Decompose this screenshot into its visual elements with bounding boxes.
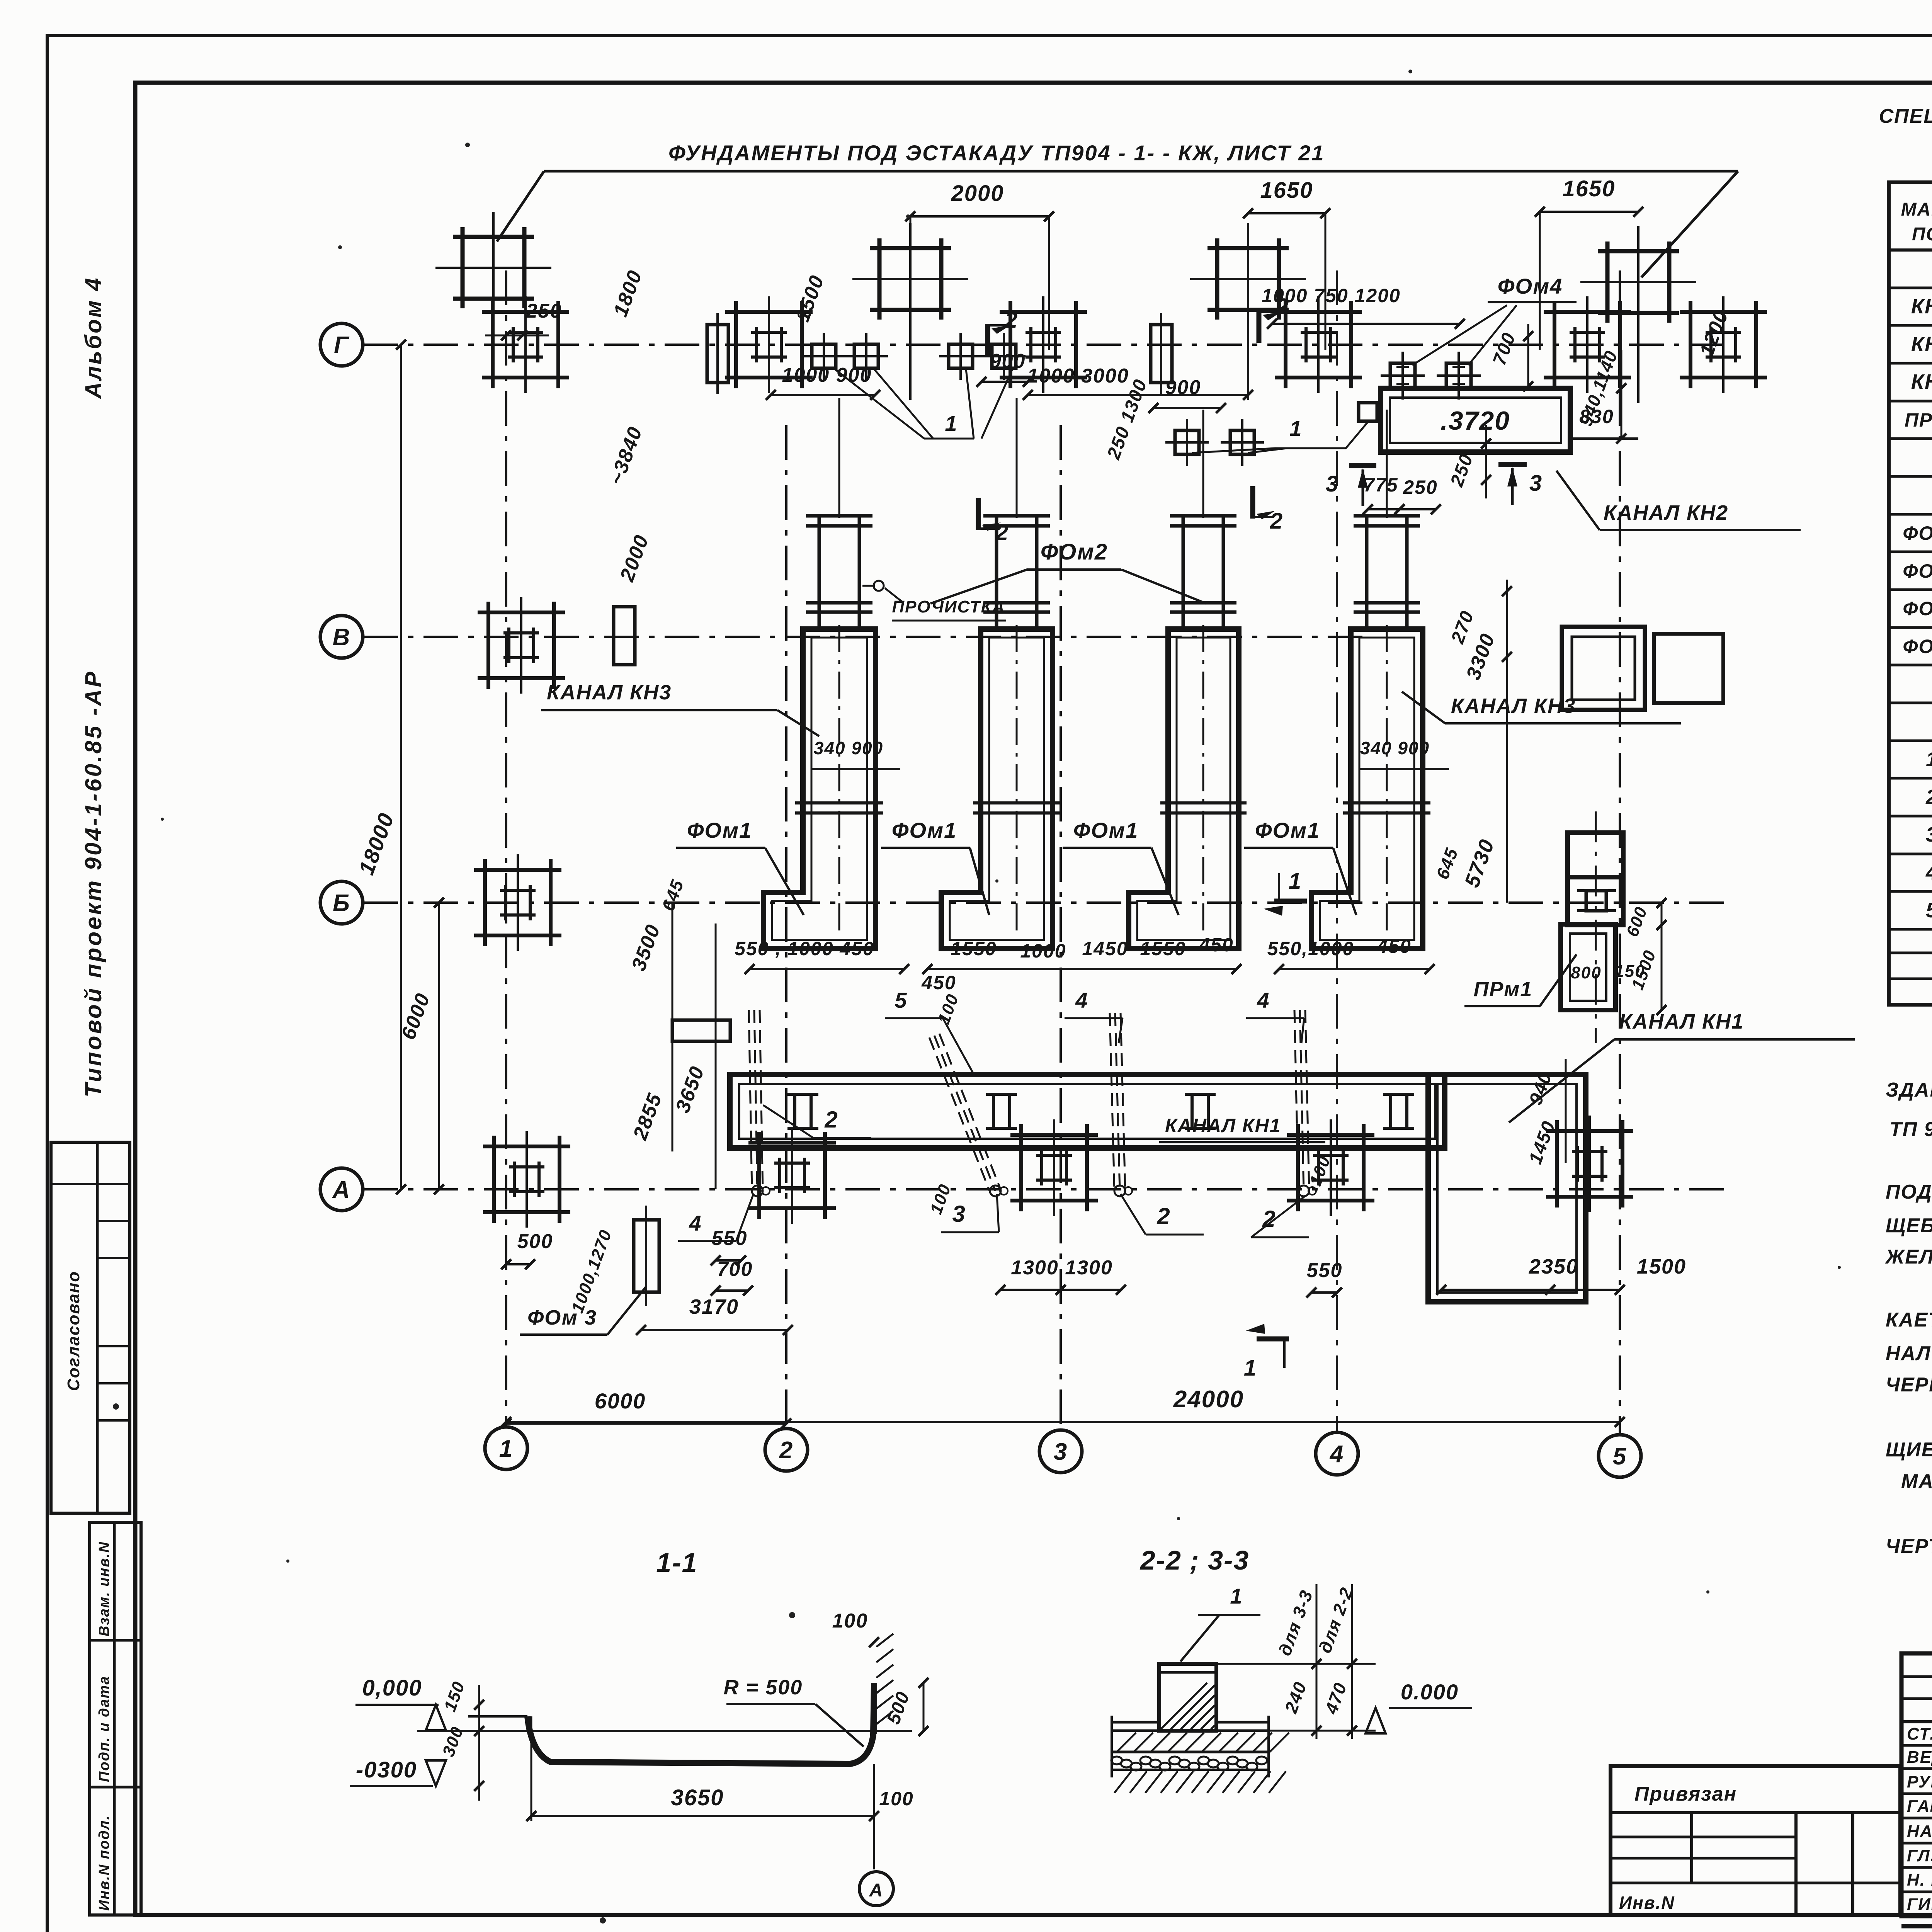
svg-text:1: 1	[1926, 748, 1932, 771]
label FOm3	[520, 1206, 659, 1335]
dim 2000 rot left	[616, 532, 653, 585]
svg-text:Типовой проект 904-1-60.85 -: Типовой проект 904-1-60.85 -АР	[80, 670, 106, 1097]
margin text project	[80, 670, 106, 1097]
svg-text:ГАП: ГАП	[1907, 1797, 1932, 1816]
foundation square on axis G	[1680, 296, 1767, 393]
channel KN3 no.1	[764, 625, 883, 949]
dim 3 label	[941, 1194, 999, 1232]
svg-text:3: 3	[1326, 471, 1339, 497]
section 1-1	[350, 1548, 929, 1906]
svg-text:ПРм1: ПРм1	[1905, 409, 1932, 431]
dim 900 a	[976, 350, 1033, 387]
svg-text:КН2: КН2	[1911, 333, 1932, 356]
svg-text:2: 2	[779, 1437, 793, 1464]
dim 3650 rot	[672, 923, 716, 1189]
dim 1000 1270 rot	[568, 1227, 616, 1315]
svg-text:А: А	[332, 1177, 351, 1203]
svg-text:5: 5	[1926, 899, 1932, 922]
dim 250 1300 rot	[1103, 376, 1151, 462]
svg-text:4: 4	[1257, 988, 1270, 1012]
svg-text:МАРКА: МАРКА	[1901, 199, 1932, 220]
axis circle 3	[1039, 1430, 1082, 1473]
axis circle Г	[320, 323, 363, 366]
svg-text:6000: 6000	[595, 1389, 646, 1413]
svg-text:ФОм1: ФОм1	[687, 818, 752, 842]
svg-text:ФОм1: ФОм1	[892, 818, 957, 842]
svg-text:Альбом 4: Альбом 4	[80, 276, 106, 400]
svg-text:В: В	[333, 624, 351, 651]
foundation square on axis A	[748, 1127, 836, 1224]
dim 940 1140 rot	[1576, 348, 1626, 444]
svg-text:2-2 ; 3-3: 2-2 ; 3-3	[1139, 1545, 1250, 1575]
witness lines above necks	[839, 398, 1387, 518]
dim 4 label left	[678, 1194, 753, 1241]
svg-text:3: 3	[1926, 823, 1932, 846]
approval strip	[51, 1142, 130, 1513]
svg-text:СТ. ТЕХН.: СТ. ТЕХН.	[1907, 1725, 1932, 1743]
svg-text:1650: 1650	[1562, 176, 1615, 201]
svg-text:24000: 24000	[1173, 1386, 1244, 1413]
section flag 2 bottom-right	[1253, 486, 1283, 534]
dim 100 rot a	[934, 991, 963, 1026]
foundation square on axis G	[1544, 296, 1631, 393]
svg-text:3: 3	[952, 1201, 966, 1227]
svg-text:700: 700	[717, 1258, 753, 1281]
spec table rows	[1903, 258, 1932, 922]
svg-text:ПОЗ.: ПОЗ.	[1912, 224, 1932, 245]
filing strip	[90, 1522, 141, 1915]
label kanal KN2	[1556, 471, 1801, 530]
foundation square on axis A	[1546, 1116, 1633, 1212]
svg-text:ФОм4: ФОм4	[1498, 274, 1563, 298]
dim 550 bottom a	[711, 1227, 747, 1265]
dim 3500 rot	[628, 903, 672, 1151]
outer border left	[46, 34, 49, 1932]
channel KN3 no.4	[1311, 625, 1430, 949]
dim 2 label a	[763, 1105, 871, 1138]
section flag 1 upper	[1264, 869, 1307, 916]
svg-text:1650: 1650	[1260, 178, 1313, 203]
svg-text:1550: 1550	[1140, 938, 1186, 959]
labels FOm1	[676, 818, 1356, 915]
dim 645 right rot	[1432, 845, 1462, 882]
dim 340 900 ch4	[1360, 738, 1449, 769]
trench 4 mid	[1110, 1013, 1132, 1196]
dim 1200 rot right	[1696, 307, 1733, 359]
label kanal KN1 mid	[1159, 1115, 1325, 1142]
svg-text:2: 2	[1005, 308, 1018, 333]
svg-text:3650: 3650	[671, 1785, 724, 1810]
foundation square on axis A	[1287, 1119, 1374, 1216]
svg-text:1: 1	[1244, 1355, 1257, 1381]
svg-text:КАНАЛ КН2: КАНАЛ КН2	[1604, 501, 1728, 524]
svg-text:2: 2	[995, 520, 1009, 545]
svg-text:775: 775	[1364, 474, 1398, 496]
dim 340 900 ch1	[811, 738, 900, 769]
title block signatures	[1907, 1723, 1932, 1917]
foundation square on axis G	[725, 296, 813, 393]
axis B line	[363, 901, 1727, 904]
svg-text:ГИП: ГИП	[1907, 1895, 1932, 1914]
svg-text:КАНАЛ КН1: КАНАЛ КН1	[1165, 1115, 1281, 1136]
svg-text:100: 100	[832, 1610, 868, 1632]
channel KN3 no.3	[1129, 625, 1247, 949]
svg-text:340 900: 340 900	[814, 738, 883, 758]
svg-text:КН1: КН1	[1911, 295, 1932, 318]
dim 2000	[905, 181, 1054, 350]
dim 250 rot kn2	[1446, 425, 1491, 498]
label kanal KN1 left	[0, 0, 0, 0]
svg-text:4: 4	[1925, 861, 1932, 884]
beam symbol mid	[1151, 313, 1172, 394]
svg-text:550,1000: 550,1000	[1267, 938, 1354, 959]
svg-text:4: 4	[1329, 1441, 1344, 1468]
channel KN1	[730, 1075, 1445, 1148]
foundation square on axis G	[1000, 296, 1087, 393]
svg-text:1000 3000: 1000 3000	[1027, 365, 1129, 387]
neck FOm2 no.2	[983, 516, 1050, 629]
svg-text:1: 1	[945, 411, 957, 435]
svg-text:ЩЕБНЯ ИЛИ ГРАВИЯ КРУПНОС: ЩЕБНЯ ИЛИ ГРАВИЯ КРУПНОСТЬЮ 40 - 60ММ, П…	[1886, 1214, 1932, 1237]
svg-text:ЧЕРЕЗ 200 - 300 МН С ОБЕИ: ЧЕРЕЗ 200 - 300 МН С ОБЕИХ СТОРОН.	[1886, 1374, 1932, 1396]
svg-text:1-1: 1-1	[656, 1548, 697, 1578]
svg-text:ФОм3: ФОм3	[1903, 598, 1932, 619]
axis 3 line	[1060, 425, 1062, 1430]
svg-text:1300 1300: 1300 1300	[1011, 1257, 1113, 1279]
svg-text:1550: 1550	[951, 938, 997, 959]
dim 550 bottom b	[1306, 1259, 1342, 1298]
label kanal KN3 left	[541, 681, 819, 736]
title block signature grid	[1901, 1653, 1932, 1916]
svg-text:100: 100	[879, 1788, 913, 1810]
svg-text:800: 800	[1571, 963, 1601, 982]
svg-text:Подп. и дата: Подп. и дата	[96, 1675, 112, 1782]
svg-text:1000: 1000	[1020, 940, 1066, 962]
axis circle 5	[1599, 1435, 1641, 1477]
svg-text:Н. КОНТР.: Н. КОНТР.	[1907, 1871, 1932, 1889]
foundation square on axis A	[1010, 1119, 1098, 1216]
svg-text:550: 550	[1307, 1259, 1343, 1282]
dim 500	[501, 1230, 553, 1269]
beam symbol axisV left	[614, 607, 635, 665]
dim 2 label c	[1251, 1196, 1309, 1237]
svg-text:5: 5	[895, 988, 907, 1012]
svg-text:НАЛОВ НЕПУЧИНИСТЫМ ГРУНТОМ: НАЛОВ НЕПУЧИНИСТЫМ ГРУНТОМ С ПОСЛОЙНЫМ Т…	[1886, 1342, 1932, 1365]
label PRm1	[1464, 898, 1667, 1015]
dim 3840 rot	[605, 423, 647, 488]
axis 1 line	[505, 270, 507, 1427]
svg-text:ВЕД. ИНЖ: ВЕД. ИНЖ	[1907, 1748, 1932, 1767]
svg-text:ПРОЧИСТКА: ПРОЧИСТКА	[892, 597, 1005, 616]
section 2-2 3-3	[1111, 1545, 1472, 1793]
svg-text:ФОм4: ФОм4	[1903, 636, 1932, 657]
dim 1500 rot	[791, 272, 829, 325]
dim 1650 a	[1243, 178, 1330, 350]
svg-text:3170: 3170	[689, 1295, 739, 1318]
svg-text:ФУНДАМЕНТЫ ПОД ЭСТАКАДУ: ФУНДАМЕНТЫ ПОД ЭСТАКАДУ ТП904 - 1- - КЖ,…	[668, 141, 1325, 165]
label top underline	[497, 171, 1738, 277]
dim 1000 750 1200	[1262, 285, 1465, 329]
svg-text:4: 4	[689, 1211, 702, 1235]
svg-text:ЩИЕСЯ В ГРУНТЕ, ОБМАЗАТЬ: ЩИЕСЯ В ГРУНТЕ, ОБМАЗАТЬ ЗА 2РАЗА ГОРЯЧИ…	[1886, 1439, 1932, 1461]
svg-text:340 900: 340 900	[1360, 738, 1430, 758]
neck FOm2 no.4	[1354, 516, 1420, 629]
dim 250 top	[485, 300, 562, 340]
dim 100 rot b	[927, 1181, 955, 1216]
svg-text:Привязан: Привязан	[1634, 1783, 1737, 1805]
dim 5 label	[885, 988, 974, 1074]
binding box	[1611, 1766, 1900, 1915]
dim 2350 1500	[1436, 1255, 1686, 1295]
svg-text:ЖЕЛЕЗОБЕТОННЫЕ - ИЗ ПЕСКА: ЖЕЛЕЗОБЕТОННЫЕ - ИЗ ПЕСКА ТОЛЩИНОЙ 100 М…	[1884, 1245, 1932, 1268]
svg-text:900: 900	[990, 350, 1026, 372]
label kanal KN1 right	[1509, 1010, 1855, 1122]
label top	[668, 141, 1325, 165]
dim 4 label b	[1246, 988, 1304, 1043]
svg-text:0,000: 0,000	[362, 1675, 422, 1701]
axis V line	[363, 636, 1368, 638]
svg-text:Г: Г	[334, 332, 350, 359]
axis circle В	[320, 616, 363, 658]
svg-text:1000 900: 1000 900	[782, 364, 872, 386]
outer border top	[47, 34, 1932, 37]
svg-text:ФОм1: ФОм1	[1073, 818, 1139, 842]
dim 270 3300 rot	[1447, 580, 1512, 683]
svg-text:450: 450	[921, 972, 956, 993]
svg-text:ЗДАНИЯ И ФУНДАМЕНТНЫХ БАЛОК: ЗДАНИЯ И ФУНДАМЕНТНЫХ БАЛОК ВЫПОЛНЕНА НА…	[1886, 1079, 1932, 1101]
neck FOm2 no.1	[806, 516, 872, 629]
dim 1000 3000	[1023, 365, 1253, 400]
dim 2855 rot	[629, 1090, 666, 1143]
axis A line	[363, 1188, 1727, 1190]
svg-text:0.000: 0.000	[1401, 1680, 1459, 1704]
estakada square 4	[1580, 226, 1696, 403]
svg-text:1500: 1500	[1637, 1255, 1686, 1278]
section flag 2 bottom-left	[978, 498, 1009, 545]
svg-text:450: 450	[1376, 935, 1411, 957]
dim 900 b	[1148, 376, 1226, 413]
svg-text:2: 2	[1270, 509, 1283, 534]
dim 4 label a	[1065, 988, 1122, 1043]
dim 2 label b	[1121, 1194, 1204, 1235]
axis 5 line	[1619, 270, 1621, 1435]
svg-text:1: 1	[1289, 869, 1302, 894]
svg-text:1: 1	[499, 1435, 513, 1462]
foundation square (5,B)	[1568, 811, 1623, 1043]
dim 830	[1570, 406, 1638, 439]
label kanal KN3 right	[1402, 692, 1681, 723]
svg-text:РУК. ГР.: РУК. ГР.	[1907, 1772, 1932, 1791]
dim 940 1450 rot	[1525, 1059, 1566, 1167]
svg-text:А: А	[869, 1880, 884, 1901]
svg-text:ПОДЗЕМНЫХ КОНСТРУКЦИЙ ВЫП: ПОДЗЕМНЫХ КОНСТРУКЦИЙ ВЫПОЛНЯТЬ ПУТЕМ ВТ…	[1886, 1180, 1932, 1203]
svg-text:МАРКИ БН 70/30 ГОСТ 6617 -: МАРКИ БН 70/30 ГОСТ 6617 - 76* ПО ХОЛОДН…	[1901, 1469, 1932, 1493]
foundation square (5,V)	[1562, 627, 1723, 710]
svg-text:Согласовано: Согласовано	[64, 1271, 83, 1391]
svg-text:5: 5	[1613, 1443, 1627, 1470]
svg-text:2: 2	[824, 1107, 838, 1133]
notes	[1884, 1043, 1932, 1558]
axis circle А	[320, 1168, 363, 1211]
svg-text:КАНАЛ КН3: КАНАЛ КН3	[547, 681, 672, 704]
section flag 1 lower	[1244, 1324, 1289, 1381]
label FOm2	[862, 539, 1206, 621]
anchor plates group 1	[802, 333, 1026, 439]
svg-text:КАНАЛ КН1: КАНАЛ КН1	[1619, 1010, 1744, 1033]
foundation square on axis G	[1275, 296, 1362, 393]
svg-text:ФОм1: ФОм1	[1255, 818, 1320, 842]
estakada square 3	[1190, 223, 1306, 400]
pit at KN1 end	[1428, 1075, 1586, 1302]
dim 5730 rot	[1460, 676, 1507, 903]
dim 6000 bottom	[501, 1389, 791, 1429]
svg-text:Взам. инв.N: Взам. инв.N	[96, 1541, 112, 1636]
axis circle 2	[765, 1429, 808, 1471]
margin text album	[80, 276, 106, 400]
estakada square top-left	[435, 212, 551, 345]
section flag 3 right	[1498, 464, 1543, 505]
svg-text:.3720: .3720	[1440, 406, 1510, 435]
dim 700 rot	[1489, 324, 1533, 391]
beam symbol left	[707, 313, 728, 394]
dim 775 250	[1363, 474, 1441, 514]
spec table title	[1879, 104, 1932, 128]
svg-text:3: 3	[1529, 471, 1543, 496]
axis 2 line	[785, 425, 787, 1429]
svg-text:4: 4	[1075, 988, 1088, 1012]
dim 6000 rot left	[397, 898, 444, 1194]
svg-text:Б: Б	[333, 890, 350, 917]
svg-text:2: 2	[1925, 786, 1932, 809]
neck FOm2 no.3	[1170, 516, 1236, 629]
svg-text:1000 750 1200: 1000 750 1200	[1262, 285, 1401, 306]
section flag 2 top-left	[988, 308, 1018, 356]
svg-text:2350: 2350	[1529, 1255, 1578, 1278]
section flag 2 top-right	[1259, 294, 1289, 343]
svg-text:ФОм2: ФОм2	[1041, 539, 1108, 565]
dim 1650 b	[1535, 176, 1643, 350]
dim 1550 1000 1450 1550 450	[922, 934, 1242, 974]
dim 450 mid	[921, 972, 956, 993]
foundation square on axis G	[482, 296, 569, 393]
axis circle Б	[320, 881, 363, 924]
svg-text:2: 2	[1156, 1203, 1170, 1229]
beam symbol B1	[672, 1020, 730, 1041]
svg-text:ЧЕРТЕЖАХ ТП 904 - 1 -: ЧЕРТЕЖАХ ТП 904 - 1 - - ВК .	[1886, 1535, 1932, 1558]
channel KN3 no.2	[941, 625, 1060, 949]
svg-text:ФОм1: ФОм1	[1903, 522, 1932, 544]
dim 1300 1300	[995, 1257, 1126, 1295]
spec table header	[1901, 199, 1932, 245]
estakada square 2	[852, 223, 968, 400]
svg-text:КАЕТСЯ ПРОИЗВОДИТЬ ПОСЛЕ: КАЕТСЯ ПРОИЗВОДИТЬ ПОСЛЕ МОНТАЖА ПЛИТ ПЕ…	[1886, 1309, 1932, 1331]
svg-text:ПРм1: ПРм1	[1474, 978, 1533, 1001]
spec table grid	[1889, 182, 1932, 1005]
svg-text:ФОм2: ФОм2	[1903, 560, 1932, 582]
svg-text:550: 550	[712, 1227, 748, 1250]
svg-text:450: 450	[1199, 934, 1233, 956]
svg-text:2000: 2000	[951, 181, 1004, 206]
svg-text:Инв.N подл.: Инв.N подл.	[96, 1815, 112, 1911]
svg-text:СПЕЦИФИКАЦИЯ К СХЕМЕ РАСПОЛ: СПЕЦИФИКАЦИЯ К СХЕМЕ РАСПОЛОЖЕНИЯ ПОДЗЕМ…	[1879, 104, 1932, 128]
svg-text:250: 250	[1403, 476, 1437, 498]
dim 1000 900 a	[766, 364, 880, 400]
svg-text:1: 1	[1230, 1584, 1243, 1608]
trench 4 left	[749, 1010, 770, 1196]
svg-text:1: 1	[1289, 416, 1302, 440]
svg-text:КАНАЛ КН3: КАНАЛ КН3	[1451, 694, 1576, 718]
anchor plates group 2	[1165, 403, 1377, 466]
svg-text:900: 900	[1165, 376, 1201, 399]
foundation square (1,V)	[478, 597, 565, 694]
svg-text:Инв.N: Инв.N	[1619, 1893, 1675, 1913]
dim 550 1000 450 b	[1267, 935, 1435, 974]
svg-text:КН3: КН3	[1911, 370, 1932, 393]
svg-text:550 , 1000 450: 550 , 1000 450	[735, 938, 874, 959]
foundation square (1,B)	[474, 854, 561, 951]
axis 4 line	[1336, 270, 1338, 1432]
FOm4 plates	[1381, 274, 1577, 400]
section flag 3 left	[1326, 466, 1376, 506]
axis circle 1	[485, 1427, 527, 1469]
svg-text:ТП 904- 1- - КЖ.: ТП 904- 1- - КЖ.	[1889, 1118, 1932, 1141]
dim 100 rot c	[1306, 1153, 1334, 1188]
svg-text:R = 500: R = 500	[724, 1676, 803, 1699]
svg-text:1450: 1450	[1082, 938, 1128, 959]
svg-text:ГЛ. СПЕЦ.: ГЛ. СПЕЦ.	[1907, 1846, 1932, 1865]
svg-text:500: 500	[517, 1230, 553, 1253]
axis G line	[363, 344, 1727, 346]
svg-text:3: 3	[1054, 1439, 1068, 1465]
dim 18000 rot	[354, 340, 406, 1194]
title block right grid	[1901, 1653, 1932, 1926]
dim 645 left rot	[658, 877, 687, 914]
svg-text:-0300: -0300	[356, 1757, 417, 1782]
trench 4 right	[1294, 1010, 1316, 1196]
dim 3170	[636, 1295, 793, 1335]
trench 5-3	[929, 1034, 1008, 1196]
dim 24000	[501, 1386, 1625, 1427]
svg-text:830: 830	[1579, 406, 1614, 427]
sump PRm1	[1561, 924, 1616, 1010]
dim 1800 rot	[609, 267, 647, 320]
foundation square on axis A	[483, 1131, 570, 1228]
dim 700 bottom	[711, 1258, 753, 1296]
svg-text:НАЧ.ОТД.: НАЧ.ОТД.	[1907, 1822, 1932, 1841]
dim 550 1000 450 a	[735, 938, 909, 974]
svg-text:250: 250	[526, 300, 562, 322]
channel KN2	[1381, 388, 1570, 452]
axis circle 4	[1316, 1432, 1358, 1475]
